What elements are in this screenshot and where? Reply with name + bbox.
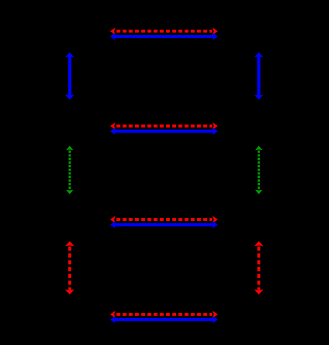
wire: row 3 blue solid horizontal double arrow	[110, 221, 218, 229]
wire: left green dotted vertical double arrow	[66, 146, 73, 195]
wire: right green dotted vertical double arrow	[255, 146, 262, 195]
wire: left blue solid vertical double arrow	[65, 52, 74, 99]
wire: row 3 red dashed horizontal double arrow	[110, 216, 218, 224]
wire: left red dashed vertical double arrow	[65, 241, 74, 294]
wire: row 2 blue solid horizontal double arrow	[110, 127, 218, 135]
wire: row 2 red dashed horizontal double arrow	[110, 122, 218, 130]
wire: row 4 blue solid horizontal double arrow	[110, 316, 218, 324]
wire: row 4 red dashed horizontal double arrow	[110, 311, 218, 319]
wire: row 1 red dashed horizontal double arrow	[110, 27, 218, 35]
wire: right red dashed vertical double arrow	[254, 241, 263, 294]
wire: right blue solid vertical double arrow	[254, 52, 263, 99]
wire: row 1 blue solid horizontal double arrow	[110, 33, 218, 41]
